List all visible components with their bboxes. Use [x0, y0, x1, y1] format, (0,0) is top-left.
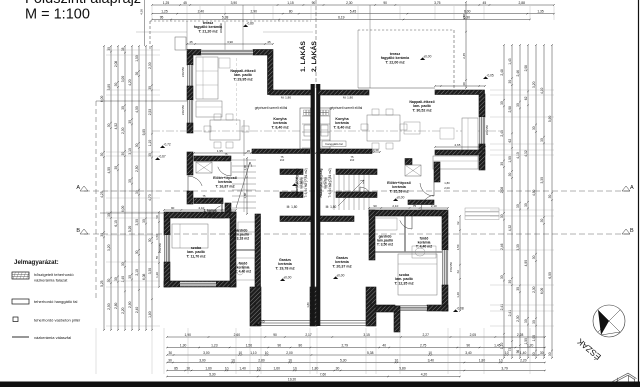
svg-text:1,88: 1,88	[243, 193, 247, 199]
svg-text:M: 1,80: M: 1,80	[281, 96, 291, 100]
svg-text:T: 22,00 m2: T: 22,00 m2	[385, 60, 404, 64]
svg-text:210: 210	[414, 213, 419, 217]
svg-text:30: 30	[336, 366, 340, 370]
svg-text:B: B	[630, 228, 634, 234]
svg-text:30: 30	[148, 86, 152, 90]
svg-text:1,60: 1,60	[205, 366, 212, 370]
svg-text:2,27: 2,27	[423, 333, 430, 337]
svg-text:30: 30	[540, 138, 544, 142]
svg-text:40: 40	[462, 82, 466, 86]
svg-text:-0,05: -0,05	[486, 73, 493, 77]
svg-text:1,20: 1,20	[155, 272, 159, 278]
svg-text:1,00: 1,00	[532, 335, 536, 342]
svg-text:30: 30	[186, 366, 190, 370]
svg-text:1,00: 1,00	[243, 165, 247, 171]
svg-text:1,60: 1,60	[274, 366, 281, 370]
svg-text:95: 95	[160, 15, 164, 19]
svg-text:3,30: 3,30	[148, 268, 152, 275]
svg-text:10: 10	[231, 358, 235, 362]
svg-text:3,15: 3,15	[363, 333, 370, 337]
svg-text:30: 30	[100, 233, 104, 237]
svg-text:30: 30	[516, 287, 520, 291]
svg-text:85: 85	[174, 366, 178, 370]
svg-text:3,20: 3,20	[107, 244, 111, 251]
svg-text:30: 30	[121, 106, 125, 110]
svg-text:62: 62	[456, 221, 460, 225]
svg-text:30: 30	[135, 190, 139, 194]
svg-text:210: 210	[224, 155, 229, 159]
svg-text:1,43: 1,43	[508, 58, 512, 65]
svg-text:T: 12,35 m2: T: 12,35 m2	[394, 281, 413, 285]
svg-text:30: 30	[516, 103, 520, 107]
svg-text:75: 75	[413, 204, 417, 208]
svg-text:3,79: 3,79	[501, 366, 508, 370]
svg-text:10: 10	[499, 358, 503, 362]
svg-text:T: 3,18 m2: T: 3,18 m2	[233, 237, 249, 241]
svg-text:T: 8,40 m2: T: 8,40 m2	[271, 125, 288, 129]
svg-text:5,25: 5,25	[100, 280, 104, 287]
svg-text:2,10: 2,10	[199, 206, 205, 210]
svg-text:30: 30	[121, 152, 125, 156]
svg-text:30: 30	[481, 143, 485, 147]
svg-text:2,46: 2,46	[500, 243, 504, 250]
svg-text:1,80: 1,80	[369, 302, 373, 308]
svg-text:1,10: 1,10	[500, 342, 504, 349]
svg-text:4,25: 4,25	[100, 191, 104, 198]
svg-text:150/150: 150/150	[449, 262, 453, 273]
svg-text:T: 29,95 m2: T: 29,95 m2	[233, 77, 252, 81]
svg-text:4,00: 4,00	[135, 106, 139, 113]
svg-text:1,80: 1,80	[253, 302, 257, 308]
svg-text:3,40: 3,40	[428, 358, 435, 362]
svg-text:55: 55	[155, 256, 159, 260]
svg-text:2,65: 2,65	[455, 143, 461, 147]
svg-text:1,40: 1,40	[239, 366, 246, 370]
svg-text:4,90: 4,90	[524, 260, 528, 267]
svg-text:gépészeti szerelt előfal: gépészeti szerelt előfal	[330, 106, 363, 110]
svg-text:2,05: 2,05	[470, 333, 477, 337]
svg-text:5,45: 5,45	[350, 10, 357, 14]
svg-text:38: 38	[121, 47, 125, 51]
svg-text:2,10: 2,10	[135, 269, 139, 276]
svg-text:3,90: 3,90	[231, 1, 238, 5]
svg-text:30: 30	[100, 152, 104, 156]
svg-text:30: 30	[532, 352, 536, 356]
svg-text:3,00: 3,00	[121, 76, 125, 83]
svg-text:30: 30	[148, 238, 152, 242]
svg-text:3,30: 3,30	[516, 244, 520, 251]
svg-text:150/150: 150/150	[158, 243, 162, 254]
svg-text:4,20: 4,20	[128, 79, 132, 86]
svg-text:30: 30	[135, 72, 139, 76]
svg-text:2,10: 2,10	[431, 204, 437, 208]
svg-text:80: 80	[299, 343, 303, 347]
svg-text:T: 6,44 m2 (7,81 m2): T: 6,44 m2 (7,81 m2)	[328, 168, 332, 197]
svg-text:30: 30	[310, 149, 314, 153]
svg-text:10: 10	[288, 358, 292, 362]
svg-text:Jelmagyarázat:: Jelmagyarázat:	[14, 259, 59, 266]
svg-text:1. LAKÁS: 1. LAKÁS	[298, 41, 307, 72]
svg-text:260/150: 260/150	[485, 125, 489, 136]
svg-text:T: 1,50 m2: T: 1,50 m2	[202, 212, 217, 216]
svg-text:90: 90	[273, 333, 277, 337]
svg-text:T: 4,40 m2: T: 4,40 m2	[416, 245, 432, 249]
svg-text:6,00: 6,00	[121, 206, 125, 213]
svg-text:30: 30	[142, 219, 146, 223]
svg-text:1,50: 1,50	[155, 234, 159, 240]
svg-text:19,20: 19,20	[288, 378, 296, 382]
svg-text:10: 10	[257, 366, 261, 370]
svg-text:2,41: 2,41	[508, 310, 512, 317]
svg-text:teherhordó hanggátló fal: teherhordó hanggátló fal	[34, 299, 77, 304]
svg-text:4,90: 4,90	[532, 189, 536, 196]
svg-text:2,20: 2,20	[520, 358, 527, 362]
svg-text:5,20: 5,20	[128, 226, 132, 233]
svg-text:45: 45	[189, 40, 193, 44]
svg-text:1,40: 1,40	[520, 351, 527, 355]
svg-text:30: 30	[508, 172, 512, 176]
svg-text:30: 30	[168, 358, 172, 362]
svg-text:T: 21,20 m2: T: 21,20 m2	[198, 29, 217, 33]
svg-text:30: 30	[524, 203, 528, 207]
svg-text:30: 30	[508, 80, 512, 84]
svg-text:gépészeti szerelt előfal: gépészeti szerelt előfal	[255, 106, 288, 110]
svg-text:90: 90	[171, 206, 175, 210]
svg-text:30: 30	[114, 277, 118, 281]
svg-text:M: 1,80: M: 1,80	[343, 96, 353, 100]
svg-text:1,90: 1,90	[185, 333, 192, 337]
svg-text:2,00: 2,00	[286, 351, 293, 355]
svg-text:2,40: 2,40	[198, 10, 205, 14]
svg-text:3,00: 3,00	[199, 358, 206, 362]
svg-text:30: 30	[107, 213, 111, 217]
svg-text:10: 10	[305, 149, 309, 153]
svg-text:45: 45	[267, 40, 271, 44]
svg-text:±0,00: ±0,00	[396, 195, 404, 199]
svg-text:B: B	[76, 228, 80, 234]
svg-text:M: 1,80: M: 1,80	[326, 205, 337, 209]
svg-text:±0,00: ±0,00	[283, 275, 291, 279]
svg-text:3,00: 3,00	[203, 351, 210, 355]
svg-text:2,20: 2,20	[121, 307, 125, 314]
svg-text:4,52: 4,52	[114, 123, 118, 130]
svg-text:2,88: 2,88	[519, 1, 526, 5]
svg-text:T: 30,52 m2: T: 30,52 m2	[412, 108, 431, 112]
svg-text:5,80: 5,80	[399, 366, 406, 370]
svg-text:1,40: 1,40	[121, 276, 125, 283]
svg-text:1,56: 1,56	[246, 343, 253, 347]
svg-text:T: 11,70 m2: T: 11,70 m2	[187, 254, 206, 258]
svg-text:1,50: 1,50	[135, 55, 139, 62]
svg-text:2,40: 2,40	[135, 307, 139, 314]
svg-text:90: 90	[383, 1, 387, 5]
svg-text:30: 30	[500, 162, 504, 166]
svg-text:T: 8,40 m2: T: 8,40 m2	[333, 125, 350, 129]
svg-text:Háztartási helyiség: Háztartási helyiség	[319, 169, 323, 198]
svg-text:62: 62	[508, 139, 512, 143]
svg-text:62: 62	[456, 270, 460, 274]
svg-text:hőszigetelt teherhordó: hőszigetelt teherhordó	[34, 272, 74, 277]
svg-text:vázkerámia válaszfal: vázkerámia válaszfal	[34, 335, 71, 340]
svg-text:40: 40	[382, 343, 386, 347]
svg-text:1,15: 1,15	[287, 1, 294, 5]
svg-text:6,08: 6,08	[142, 273, 146, 280]
svg-text:2,90: 2,90	[251, 10, 258, 14]
svg-text:6,30: 6,30	[464, 15, 471, 19]
svg-text:M = 1:100: M = 1:100	[25, 7, 90, 23]
svg-text:30: 30	[168, 351, 172, 355]
svg-text:30: 30	[548, 194, 552, 198]
svg-text:30: 30	[524, 319, 528, 323]
svg-text:210: 210	[350, 158, 355, 162]
svg-text:30: 30	[128, 275, 132, 279]
svg-text:30: 30	[508, 280, 512, 284]
svg-text:6,00: 6,00	[464, 10, 471, 14]
svg-text:10: 10	[225, 366, 229, 370]
svg-text:90: 90	[277, 343, 281, 347]
svg-text:30: 30	[128, 120, 132, 124]
svg-text:3,75: 3,75	[434, 1, 441, 5]
svg-text:-0,67: -0,67	[158, 154, 165, 158]
svg-text:6,15: 6,15	[114, 220, 118, 227]
svg-text:6,19: 6,19	[338, 15, 345, 19]
svg-text:1,80: 1,80	[444, 181, 450, 185]
svg-text:30: 30	[107, 123, 111, 127]
svg-text:4,70: 4,70	[148, 194, 152, 201]
svg-text:T: 19,78 m2: T: 19,78 m2	[275, 266, 294, 270]
svg-text:T: 20,37 m2: T: 20,37 m2	[332, 264, 351, 268]
svg-text:10: 10	[293, 366, 297, 370]
svg-text:30: 30	[500, 214, 504, 218]
svg-text:3,40: 3,40	[465, 351, 472, 355]
svg-text:kerámia: kerámia	[323, 177, 327, 189]
svg-text:2,46: 2,46	[516, 70, 520, 77]
svg-text:30: 30	[121, 262, 125, 266]
svg-text:2,79: 2,79	[342, 343, 349, 347]
svg-text:30: 30	[114, 83, 118, 87]
svg-text:30: 30	[540, 219, 544, 223]
svg-text:T: 6,44 m2 (7,81 m2): T: 6,44 m2 (7,81 m2)	[304, 168, 308, 197]
svg-text:2. LAKÁS: 2. LAKÁS	[309, 41, 318, 72]
svg-text:2,80: 2,80	[258, 358, 265, 362]
svg-text:T: 4,40 m2: T: 4,40 m2	[235, 270, 251, 274]
svg-text:2,75: 2,75	[420, 343, 427, 347]
svg-text:30: 30	[114, 166, 118, 170]
svg-text:30: 30	[500, 101, 504, 105]
svg-text:4,32: 4,32	[524, 150, 528, 157]
svg-text:2,80: 2,80	[114, 302, 118, 309]
svg-text:T: 3,50 m2: T: 3,50 m2	[377, 243, 393, 247]
svg-text:2,08: 2,08	[114, 61, 118, 68]
svg-text:2,90: 2,90	[128, 301, 132, 308]
svg-text:2,53: 2,53	[148, 109, 152, 116]
svg-text:3,90: 3,90	[227, 40, 233, 44]
svg-text:90: 90	[466, 343, 470, 347]
svg-text:2,05: 2,05	[275, 149, 281, 153]
svg-text:90: 90	[312, 1, 316, 5]
svg-text:1,00: 1,00	[508, 156, 512, 163]
svg-text:3,30: 3,30	[135, 219, 139, 226]
svg-text:3,80: 3,80	[107, 84, 111, 91]
svg-text:6,00: 6,00	[540, 288, 544, 295]
svg-text:2,60: 2,60	[234, 333, 241, 337]
svg-text:4,10: 4,10	[540, 87, 544, 94]
svg-text:1,10: 1,10	[250, 351, 257, 355]
svg-text:-0,08: -0,08	[456, 306, 463, 310]
svg-text:2,41: 2,41	[500, 304, 504, 311]
svg-text:4,32: 4,32	[508, 225, 512, 232]
svg-text:210: 210	[280, 158, 285, 162]
svg-text:45: 45	[183, 1, 187, 5]
svg-text:30: 30	[532, 320, 536, 324]
svg-text:30: 30	[135, 250, 139, 254]
svg-text:2,30: 2,30	[346, 1, 353, 5]
svg-text:1,80: 1,80	[306, 302, 310, 308]
svg-text:30: 30	[128, 179, 132, 183]
svg-text:1,95: 1,95	[217, 149, 223, 153]
svg-text:4,20: 4,20	[421, 372, 428, 376]
svg-text:-0,80: -0,80	[246, 21, 253, 25]
svg-text:4,50: 4,50	[107, 167, 111, 174]
svg-text:1,80: 1,80	[312, 366, 319, 370]
svg-text:80: 80	[289, 10, 293, 14]
svg-text:2,50: 2,50	[107, 303, 111, 310]
svg-text:5,38: 5,38	[222, 15, 229, 19]
svg-text:20: 20	[247, 149, 251, 153]
svg-text:2,08: 2,08	[508, 106, 512, 113]
svg-text:teherhordó vasbeton pillér: teherhordó vasbeton pillér	[34, 318, 81, 323]
svg-text:5,30: 5,30	[340, 358, 347, 362]
svg-text:1,80: 1,80	[148, 311, 152, 318]
svg-text:1,23: 1,23	[211, 343, 218, 347]
svg-text:3,10: 3,10	[128, 148, 132, 155]
svg-text:A: A	[76, 185, 80, 191]
svg-text:M: 1,80: M: 1,80	[287, 205, 298, 209]
svg-text:2,30: 2,30	[516, 315, 520, 322]
svg-text:-0,72: -0,72	[163, 142, 170, 146]
svg-text:5,90: 5,90	[548, 115, 552, 122]
svg-text:30: 30	[107, 278, 111, 282]
svg-text:±0,00: ±0,00	[336, 273, 344, 277]
svg-text:2,00: 2,00	[444, 186, 450, 190]
svg-text:240/150: 240/150	[181, 67, 185, 78]
svg-text:45: 45	[483, 1, 487, 5]
svg-text:3,20: 3,20	[532, 81, 536, 88]
svg-text:2,45: 2,45	[462, 53, 466, 59]
svg-text:9,85: 9,85	[142, 129, 146, 136]
svg-text:30: 30	[375, 148, 379, 152]
svg-text:1,40: 1,40	[456, 292, 460, 298]
svg-text:1,35: 1,35	[537, 10, 544, 14]
svg-text:1,20: 1,20	[527, 343, 534, 347]
svg-text:4,10: 4,10	[516, 152, 520, 159]
svg-text:1,45: 1,45	[494, 343, 501, 347]
svg-text:5,30: 5,30	[209, 372, 216, 376]
svg-text:1,10: 1,10	[148, 140, 152, 147]
svg-text:6,00: 6,00	[548, 272, 552, 279]
svg-text:T: 16,87 m2: T: 16,87 m2	[215, 184, 234, 188]
svg-text:3,30: 3,30	[540, 177, 544, 184]
svg-text:10: 10	[428, 351, 432, 355]
svg-text:30: 30	[148, 153, 152, 157]
svg-text:6,00: 6,00	[100, 96, 104, 103]
svg-text:240/150: 240/150	[181, 105, 185, 116]
svg-text:-0,18: -0,18	[295, 180, 302, 184]
svg-text:2,17: 2,17	[305, 333, 312, 337]
svg-text:2,08: 2,08	[524, 65, 528, 72]
svg-text:1,25: 1,25	[161, 10, 168, 14]
svg-text:30: 30	[548, 352, 552, 356]
svg-text:73: 73	[508, 348, 512, 352]
svg-text:90: 90	[373, 204, 377, 208]
svg-text:10: 10	[238, 351, 242, 355]
svg-text:30: 30	[532, 255, 536, 259]
svg-text:2,08: 2,08	[500, 187, 504, 194]
svg-text:62: 62	[524, 96, 528, 100]
svg-text:10: 10	[505, 351, 509, 355]
svg-text:1,50: 1,50	[456, 244, 460, 250]
svg-text:2,55: 2,55	[343, 148, 349, 152]
svg-text:30: 30	[532, 126, 536, 130]
svg-text:2,28: 2,28	[517, 333, 524, 337]
svg-text:-0,05: -0,05	[257, 319, 264, 323]
svg-text:±0,00: ±0,00	[423, 54, 431, 58]
svg-text:T: 15,53 m2: T: 15,53 m2	[389, 189, 408, 193]
svg-text:2,10: 2,10	[392, 204, 398, 208]
svg-text:75: 75	[227, 206, 231, 210]
svg-text:5,38: 5,38	[367, 351, 374, 355]
svg-text:30: 30	[516, 204, 520, 208]
svg-text:hanggátló fal: hanggátló fal	[325, 142, 343, 146]
svg-text:1,80: 1,80	[479, 358, 486, 362]
svg-text:2,48: 2,48	[500, 69, 504, 76]
svg-text:30: 30	[135, 143, 139, 147]
svg-text:10: 10	[395, 358, 399, 362]
svg-text:10: 10	[265, 351, 269, 355]
svg-text:210: 210	[202, 197, 207, 201]
svg-text:2,30: 2,30	[121, 127, 125, 134]
svg-text:2,45: 2,45	[500, 130, 504, 137]
svg-text:1,30: 1,30	[180, 343, 187, 347]
svg-text:2,30: 2,30	[532, 286, 536, 293]
svg-text:2,30: 2,30	[148, 62, 152, 69]
svg-text:7,60: 7,60	[320, 372, 327, 376]
svg-text:30: 30	[540, 351, 544, 355]
svg-text:A: A	[630, 185, 634, 191]
svg-text:4,38: 4,38	[140, 9, 144, 15]
svg-text:30: 30	[500, 275, 504, 279]
svg-text:2,50: 2,50	[135, 165, 139, 172]
svg-text:1,25: 1,25	[163, 1, 170, 5]
svg-text:vázkerámia falazat: vázkerámia falazat	[34, 278, 68, 283]
